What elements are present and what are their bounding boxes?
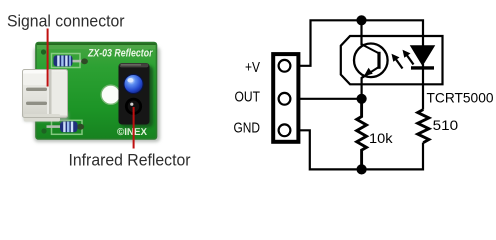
TCRT5000 package outline (341, 36, 443, 84)
sensor lens (phototransistor) (125, 98, 142, 115)
resistor R2 lead (47, 125, 62, 128)
junction OUT node (357, 94, 367, 104)
light arrows toward transistor (392, 50, 414, 69)
svg-text:+V: +V (245, 59, 260, 76)
svg-text:ZX-03 Reflector: ZX-03 Reflector (87, 48, 153, 60)
PCB board ZX-03 (36, 43, 157, 140)
arrow 2 (406, 54, 413, 64)
silkscreen box resistor R2 (52, 120, 83, 134)
annotation line to connector (47, 29, 49, 87)
resistor R1 lead (71, 60, 84, 63)
junction GND node (357, 164, 367, 174)
resistor R1 body (54, 55, 73, 66)
svg-text:GND: GND (234, 119, 261, 136)
signal connector (white JST) shadow (24, 112, 68, 121)
svg-text:OUT: OUT (235, 89, 261, 106)
wire GND net (291, 130, 423, 169)
IR LED D1 (411, 46, 434, 65)
resistor R 510 (418, 110, 429, 143)
corner hole top-left (41, 49, 46, 54)
arrow 1 (395, 58, 402, 68)
emitter arrowhead (364, 68, 373, 77)
svg-text:Signal connector: Signal connector (7, 12, 125, 31)
resistor R 10k (357, 99, 367, 170)
board shadow (34, 47, 160, 142)
annotation line to reflector (133, 107, 135, 149)
resistor R2 body (60, 121, 78, 132)
connector K1 (273, 54, 298, 142)
resistor R1 solder (81, 58, 88, 64)
svg-text:510: 510 (433, 117, 459, 133)
wire +V net: pin to top rail to LED anode (290, 20, 423, 66)
junction top rail (356, 15, 366, 25)
pin OUT (279, 93, 291, 105)
connector slot 1 (26, 88, 47, 91)
pin +V (279, 60, 291, 72)
sensor shadow on board (121, 66, 153, 127)
sensor blue dome (IR LED) (124, 74, 143, 93)
svg-text:TCRT5000: TCRT5000 (427, 90, 494, 106)
TCRT5000 sensor body (119, 63, 150, 125)
corner hole top-right (148, 50, 153, 55)
corner hole bottom-left (41, 128, 46, 133)
wire OUT net (290, 98, 361, 100)
pin GND (279, 124, 291, 136)
connector foot (24, 114, 60, 122)
center hole (101, 85, 120, 104)
svg-text:©INEX: ©INEX (117, 127, 147, 138)
svg-text:10k: 10k (369, 131, 393, 146)
svg-text:Infrared Reflector: Infrared Reflector (69, 151, 191, 170)
wire emitter to OUT junction (362, 67, 379, 99)
signal connector body (23, 70, 68, 118)
connector slot 2 (26, 102, 47, 105)
wire collector from top rail into transistor (362, 20, 379, 53)
silkscreen box resistor R1 (52, 54, 81, 68)
resistor R2 solder (77, 124, 84, 130)
phototransistor Q1 (354, 44, 388, 78)
